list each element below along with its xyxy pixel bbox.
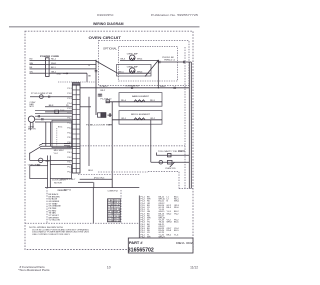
svg-text:GND: GND [57,73,62,75]
svg-text:USE COPPER CONDUCTORS ONLY.: USE COPPER CONDUCTORS ONLY. [32,234,70,236]
vent switch [39,95,43,99]
power wire L1 [30,59,46,61]
svg-text:Publication No. 5995577725: Publication No. 5995577725 [151,13,198,17]
fuse wire row 1 [45,106,72,108]
svg-text:COLOR CODE: COLOR CODE [58,190,67,192]
anti-tip wire row [30,96,72,98]
lamp feed drop [157,60,159,87]
bake element box [119,93,162,107]
svg-text:P10 OR-5 BK-7: P10 OR-5 BK-7 [61,179,76,181]
svg-text:MTR: MTR [30,106,35,108]
power cord pin ticks [46,60,50,73]
broil element symbol [134,118,145,120]
outer dashed border of oven circuit diagram [25,31,193,249]
conv drop wires [30,122,33,130]
dashed tod bottom [148,172,179,189]
cavity wire solid [42,145,81,147]
right bus L1 [188,62,190,189]
svg-text:316565702: 316565702 [128,247,154,253]
svg-text:WH-9: WH-9 [160,86,166,88]
ground dashed wire [58,81,96,83]
main board connector strip [72,85,80,173]
junction dots [158,60,159,61]
wires from cord to bus [49,59,96,61]
svg-text:FFES3015PSC: FFES3015PSC [97,13,114,17]
power wire GND [30,72,46,74]
notes block [29,227,89,236]
drop vertical 2 [49,122,51,146]
svg-text:EOC: EOC [58,127,63,129]
lamp feed wire [80,87,189,89]
svg-text:WIRING DIAGRAM: WIRING DIAGRAM [93,21,124,26]
strip stub wire [80,106,91,108]
rail drop [92,188,94,223]
svg-text:WH-1: WH-1 [51,63,57,65]
feed wire ticks [132,87,176,89]
svg-text:OVEN CIRCUIT: OVEN CIRCUIT [89,36,122,40]
svg-text:RD: RD [30,59,34,61]
pin list columns right group [167,197,180,237]
door switch diagonal [145,60,158,76]
lamp 2 wire [118,72,151,74]
ground drop wire [86,73,88,82]
drop vertical 1 [45,122,47,146]
svg-text:OR-2: OR-2 [150,118,156,120]
dashed console divider vertical [46,188,48,224]
anti-tip diagonal wire [30,146,42,153]
connector pin labels column [67,88,72,173]
dashed console left [98,171,148,173]
latch out wire 1 [80,178,113,180]
svg-text:POWER CORD: POWER CORD [40,56,60,58]
svg-text:OR-1: OR-1 [121,118,127,120]
svg-text:OPTIONAL: OPTIONAL [103,46,118,50]
TOD cutout circle [159,160,163,164]
relay coil symbol [98,94,102,97]
optional lamps dashed box [99,41,190,86]
element feed bus [111,102,113,188]
wire connector ticks [159,61,185,63]
svg-text:GY 20: GY 20 [115,221,122,223]
probe jack [39,158,43,162]
svg-text:*Non-Illustrated Parts: *Non-Illustrated Parts [18,268,50,272]
probe wire row [30,159,73,161]
svg-text:REV- 002: REV- 002 [176,241,193,245]
tod arrow tick [178,150,185,152]
header rule [9,26,200,28]
part number box [128,238,193,253]
right bus L2 [190,62,192,189]
oven lamp 2 [129,68,135,74]
svg-text:P5 BK-1: P5 BK-1 [100,86,109,88]
svg-text:WH-1: WH-1 [174,201,180,203]
latch verticals [47,156,49,188]
svg-text:BROIL ELEMENT: BROIL ELEMENT [131,114,151,116]
broil element wire [112,119,162,121]
tall dashed partition [184,47,186,189]
junction drop [29,153,31,160]
drop vertical 3 [56,128,58,147]
bake feed contact [106,100,110,103]
svg-text:YL YELLOW: YL YELLOW [49,220,60,222]
inner lamp dashed box [119,47,178,81]
dashed shelf line [80,145,185,147]
anti-tip switch blade [39,144,43,146]
power wire N [30,64,46,66]
svg-text:WH-6: WH-6 [137,72,143,74]
oven lamp 1 [129,55,135,61]
relay out wire [108,113,113,117]
dashed console divider horizontal [25,222,139,224]
svg-text:OVEN TOD: OVEN TOD [165,168,176,170]
top-right feed wire [158,60,191,62]
svg-text:10: 10 [107,266,111,270]
dashed right closure [179,188,193,190]
svg-text:P1-2 BK-10: P1-2 BK-10 [101,99,113,101]
svg-text:RD-5: RD-5 [150,100,156,102]
connector pin table [108,199,121,222]
conv motor wires [35,110,72,122]
dashed partition at pin table [120,190,122,223]
svg-text:GN: GN [30,72,34,74]
mdl wire row [42,142,72,144]
ground arrow [63,73,68,74]
dashed console top [78,174,139,176]
TOD contact [168,154,172,157]
svg-text:P8/RD-2 L1: P8/RD-2 L1 [164,60,176,62]
svg-text:P2 BK-11 DOOR SW: P2 BK-11 DOOR SW [86,124,110,126]
svg-text:SW: SW [37,164,40,166]
svg-text:BAKE ELEMENT: BAKE ELEMENT [132,95,150,98]
latch box left [30,166,48,179]
TOD drop wire [150,120,152,162]
latch drop [93,182,95,187]
svg-text:RD-4: RD-4 [121,100,127,102]
bus junction dot [95,60,96,61]
svg-text:WH-4: WH-4 [137,59,143,61]
bake element wire [106,101,162,103]
svg-text:PART #: PART # [129,241,143,245]
bus connector ticks [95,71,98,72]
svg-text:MOTOR: MOTOR [54,183,62,185]
vent row ticks [49,96,50,98]
pin list columns [141,197,166,239]
door sw wire row [109,124,113,126]
control box outline [52,120,72,147]
svg-text:CONN P12: CONN P12 [108,190,119,192]
conv cap ticks [38,115,43,120]
svg-text:11/12: 11/12 [190,266,198,270]
TOD wire 2 [151,161,190,163]
svg-text:WH-8: WH-8 [167,222,173,224]
relay contact K2 [101,113,106,118]
relay contact K1 [98,113,101,117]
left feed bus [95,60,97,115]
TOD contact 2 [168,160,173,164]
mdl wire row 2 [40,148,72,150]
thermal fuse [55,110,59,113]
connector strip header block [72,83,80,86]
bus to lamp box diagonal [96,61,118,73]
latch out wire 2 [78,181,93,183]
bake element symbol [134,100,145,102]
lamp 1 wire [120,59,158,61]
long bottom rail [45,187,139,189]
latch box right [50,165,71,179]
svg-text:RD-1: RD-1 [51,59,57,61]
svg-text:(P11) OR-5: (P11) OR-5 [94,178,105,180]
legend color rows [49,193,62,222]
lamp 2 housing rect [117,65,152,77]
connector strip mid line [75,85,77,173]
fuse wire row 2 [45,111,72,113]
connector pin rows [72,90,80,168]
power cord connector block [46,58,50,77]
svg-text:WH: WH [30,63,34,65]
TOD wire 1 [157,153,190,156]
svg-text:MOTOR: MOTOR [28,129,36,131]
power wire L2 [30,68,46,70]
conv motor [28,116,34,122]
mid drop vertical [88,97,90,166]
broil element box [119,111,162,125]
TOD switch diagonal [170,162,175,167]
pin list table left edge [138,196,140,239]
